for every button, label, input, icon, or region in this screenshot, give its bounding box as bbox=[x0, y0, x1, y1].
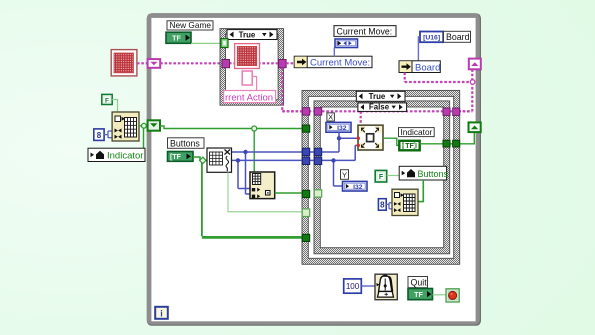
Indicator label (inner case) bbox=[399, 127, 435, 137]
green left shift register bbox=[148, 120, 160, 130]
dashed magenta: Board var down and right to magenta right SR bbox=[404, 73, 406, 83]
svg-text:rrent Action: rrent Action bbox=[225, 92, 273, 103]
wire: New Game TF to case1 boolean tunnel bbox=[191, 42, 222, 44]
wires: 8 constant to index array inputs bbox=[104, 131, 112, 138]
green wire: shift register to case2 (long horizontal) bbox=[160, 126, 303, 172]
dashed magenta: case1 to Current Move local var, and down to case2 bbox=[286, 62, 294, 64]
thin green wire: search node bottom to case2 hollow tunnel bbox=[228, 172, 303, 212]
svg-text:100: 100 bbox=[346, 282, 360, 291]
svg-text:TF: TF bbox=[405, 143, 414, 150]
Current Move: label (top) bbox=[334, 26, 396, 37]
svg-text:True: True bbox=[239, 30, 256, 39]
magenta left shift register bbox=[148, 59, 161, 68]
blue tunnels on case borders bbox=[302, 148, 309, 155]
svg-text:8: 8 bbox=[380, 201, 385, 210]
Quit TF terminal bbox=[408, 289, 433, 300]
wire: index array out to green left shift register with junction bbox=[139, 126, 148, 148]
svg-text:[U16]: [U16] bbox=[423, 35, 440, 42]
svg-text:True: True bbox=[369, 92, 386, 101]
index array / replace array subset node (left) bbox=[112, 112, 139, 141]
100 constant bbox=[344, 279, 362, 293]
X label bbox=[327, 113, 335, 122]
svg-text:I32: I32 bbox=[353, 184, 363, 191]
svg-text:Buttons: Buttons bbox=[418, 169, 449, 179]
small pink node inside case1 bbox=[242, 71, 256, 91]
svg-text:Current Move:: Current Move: bbox=[310, 58, 370, 69]
svg-text:Buttons: Buttons bbox=[170, 138, 200, 148]
wire: F to Buttons local var bbox=[387, 175, 400, 177]
array constant (left, outside loop) bbox=[111, 50, 137, 76]
wire: array constant to left shift register (dashed magenta) bbox=[137, 62, 149, 64]
green tunnel case2 bottom-left bbox=[302, 234, 309, 241]
svg-text:Y: Y bbox=[342, 171, 347, 180]
green tunnels on case3/case2 right borders bbox=[443, 140, 450, 147]
svg-text:I32: I32 bbox=[337, 125, 347, 132]
F constant (inner case) bbox=[375, 170, 387, 182]
index array node (inner case) bbox=[392, 189, 418, 215]
Y label bbox=[341, 170, 349, 180]
green right shift register bbox=[469, 122, 481, 132]
wire: Indicator TF to green right SR bbox=[420, 132, 475, 144]
[U16] terminal (Board) bbox=[420, 32, 443, 43]
array constant inside case1 bbox=[235, 44, 260, 69]
case1 selector "True" bbox=[227, 30, 277, 40]
Quit label bbox=[408, 277, 428, 288]
while loop border bbox=[147, 13, 481, 326]
Buttons label (middle) bbox=[168, 138, 205, 149]
search 2D array node bbox=[207, 148, 232, 172]
svg-text:Indicator: Indicator bbox=[401, 127, 433, 137]
svg-text:8: 8 bbox=[97, 131, 102, 140]
dashed magenta wire: left SR to case1 bbox=[160, 62, 222, 64]
svg-text:TF: TF bbox=[414, 290, 423, 299]
coerce / reshape node (4 arrows) bbox=[358, 125, 383, 150]
svg-text:X: X bbox=[328, 113, 333, 122]
svg-text:Board: Board bbox=[415, 62, 440, 73]
X I32 terminal bbox=[326, 122, 351, 132]
wires: 8 to index array 2 bbox=[386, 203, 392, 209]
green wire: cluster node out to case2 tunnel bbox=[275, 192, 303, 194]
Y I32 terminal bbox=[343, 181, 368, 191]
svg-text:i: i bbox=[160, 309, 163, 319]
case2 selector "True" bbox=[356, 91, 405, 101]
dashed magenta drop to coerce node bbox=[360, 111, 362, 125]
dashed magenta wire inside case1 bbox=[229, 62, 236, 64]
svg-text:False: False bbox=[369, 103, 390, 112]
blue junction dots bbox=[243, 150, 247, 154]
svg-text:TF: TF bbox=[172, 34, 181, 43]
wire: 100 to wait node bbox=[361, 285, 375, 287]
case1 boolean tunnel (green) bbox=[221, 39, 228, 48]
magenta tunnels on case2/case3 left borders bbox=[302, 108, 309, 115]
wire: F constant to index array bbox=[112, 100, 117, 113]
New Game label bbox=[167, 20, 213, 30]
wait ms node (metronome) bbox=[375, 274, 397, 300]
svg-text:Board: Board bbox=[446, 32, 470, 42]
Board label (top) bbox=[444, 31, 471, 42]
New Game TF terminal bbox=[166, 32, 191, 43]
svg-text:[TF: [TF bbox=[170, 154, 182, 161]
wire: coerce out to Indicator TF bbox=[383, 138, 399, 145]
magenta right shift register bbox=[469, 59, 481, 70]
svg-text:Quit: Quit bbox=[411, 277, 428, 287]
cluster index node bbox=[250, 172, 275, 199]
Buttons local variable (inner case) bbox=[399, 166, 448, 180]
Current Action label (clipped) bbox=[224, 91, 276, 104]
green tunnel on case2 left border (from long green wire) bbox=[302, 125, 309, 132]
svg-text:Current Move:: Current Move: bbox=[337, 26, 393, 36]
8 constant (inner case) bbox=[378, 199, 386, 211]
iteration terminal i bbox=[155, 307, 168, 319]
case3 selector "False" bbox=[358, 103, 407, 112]
case1 left magenta tunnel bbox=[222, 60, 230, 68]
case1 right magenta tunnel bbox=[279, 60, 287, 68]
wire: U16 terminal to Board local var bbox=[418, 37, 420, 61]
Indicator local variable (left) bbox=[88, 148, 145, 161]
wire: Quit TF to stop button bbox=[433, 294, 447, 296]
8 constant (left) bbox=[94, 129, 104, 141]
blue wires (X/Y) with tunnels bbox=[232, 132, 359, 194]
wire: Buttons var to index array 2 bbox=[418, 180, 424, 202]
dashed magenta wire across case (redrawn over white interiors) bbox=[282, 110, 472, 112]
svg-text:New Game: New Game bbox=[170, 20, 212, 30]
wire: Buttons TF to search node + down to case2 bbox=[193, 157, 303, 237]
svg-text:Indicator: Indicator bbox=[107, 151, 143, 162]
Indicator TF terminal (indicator style) bbox=[399, 141, 419, 151]
svg-text:F: F bbox=[379, 174, 384, 181]
F constant (left) bbox=[102, 94, 112, 104]
svg-text:F: F bbox=[105, 97, 109, 104]
case structure 1 (New Game) border bbox=[220, 29, 284, 106]
Current Move: local variable bbox=[294, 56, 372, 68]
magenta tunnels on case3/case2 right borders bbox=[443, 108, 450, 115]
Board local variable bbox=[399, 61, 440, 74]
wire: enum terminal down to local var bbox=[333, 48, 335, 57]
stop button terminal bbox=[446, 289, 459, 302]
Current Move enum terminal bbox=[335, 39, 358, 48]
Buttons TF terminal bbox=[168, 152, 194, 162]
